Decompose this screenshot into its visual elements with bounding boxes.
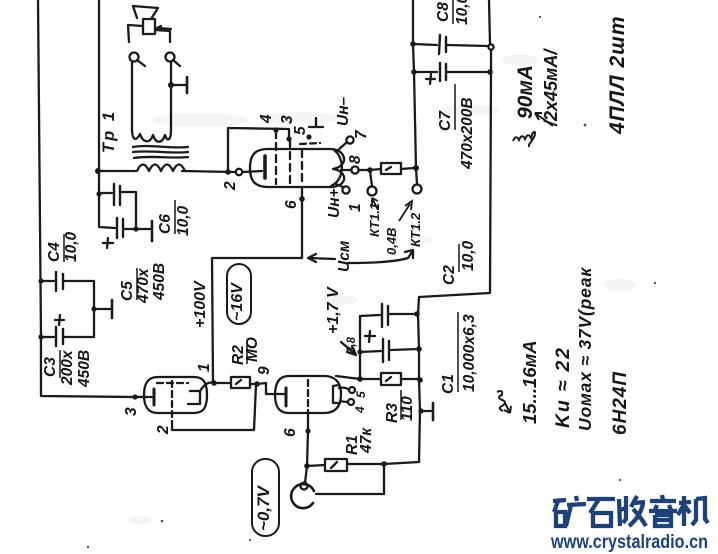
svg-text:10,0: 10,0 xyxy=(175,205,192,236)
svg-text:+100V: +100V xyxy=(192,280,209,328)
svg-text:470x200В: 470x200В xyxy=(459,97,476,170)
svg-text:200x: 200x xyxy=(59,349,76,386)
svg-text:C6: C6 xyxy=(157,214,174,234)
svg-text:Ku ≈ 22: Ku ≈ 22 xyxy=(552,346,574,428)
svg-text:Тр 1: Тр 1 xyxy=(100,109,118,153)
svg-text:2: 2 xyxy=(222,181,239,191)
svg-text:~0,7V: ~0,7V xyxy=(254,484,273,531)
svg-text:~16V: ~16V xyxy=(229,282,246,321)
svg-text:1: 1 xyxy=(347,203,364,212)
svg-text:3: 3 xyxy=(279,115,296,124)
svg-text:3,8: 3,8 xyxy=(346,336,358,353)
svg-text:9: 9 xyxy=(256,366,273,375)
svg-text:C2: C2 xyxy=(441,265,458,285)
svg-text:C5: C5 xyxy=(119,281,136,301)
svg-text:C8: C8 xyxy=(435,2,452,22)
svg-text:450В: 450В xyxy=(76,350,93,388)
svg-text:C1: C1 xyxy=(440,374,457,394)
svg-text:6: 6 xyxy=(282,428,299,437)
svg-text:6Н24П: 6Н24П xyxy=(610,371,631,435)
svg-text:C3: C3 xyxy=(42,357,59,377)
svg-text:10,0: 10,0 xyxy=(63,231,80,262)
svg-text:2: 2 xyxy=(155,425,172,435)
svg-text:C4: C4 xyxy=(46,242,63,262)
svg-text:10,0: 10,0 xyxy=(454,0,471,25)
svg-text:Uсм: Uсм xyxy=(336,240,353,272)
svg-text:15...16мА: 15...16мА xyxy=(519,340,540,424)
svg-text:3: 3 xyxy=(123,407,140,416)
svg-text:КТ1.1: КТ1.1 xyxy=(367,203,382,237)
svg-text:C7: C7 xyxy=(437,110,454,131)
svg-text:6: 6 xyxy=(283,200,300,209)
svg-text:+1,7 V: +1,7 V xyxy=(325,286,342,334)
svg-text:7: 7 xyxy=(353,129,370,139)
svg-text:/2x45мА/: /2x45мА/ xyxy=(541,48,561,127)
svg-text:10,000x6,3: 10,000x6,3 xyxy=(461,314,478,392)
svg-text:4ПЛЛ 2шт: 4ПЛЛ 2шт xyxy=(606,16,629,136)
svg-text:КТ1.2: КТ1.2 xyxy=(408,212,423,247)
svg-text:Uн+: Uн+ xyxy=(326,188,343,218)
svg-text:10,0: 10,0 xyxy=(460,240,477,271)
svg-text:47к: 47к xyxy=(358,427,375,454)
svg-text:www.crystalradio.cn: www.crystalradio.cn xyxy=(550,532,708,553)
svg-text:5: 5 xyxy=(354,391,368,398)
svg-text:5: 5 xyxy=(292,126,309,135)
svg-text:Uомах ≈ 37V(реак: Uомах ≈ 37V(реак xyxy=(575,267,595,431)
svg-text:450В: 450В xyxy=(151,263,168,301)
svg-text:90мА: 90мА xyxy=(514,65,537,119)
svg-text:4: 4 xyxy=(353,406,367,414)
svg-text:1: 1 xyxy=(196,363,213,372)
svg-text:8: 8 xyxy=(347,155,364,164)
svg-text:4: 4 xyxy=(258,114,275,124)
svg-text:Uн–: Uн– xyxy=(335,96,352,126)
svg-text:0,4В: 0,4В xyxy=(384,228,399,255)
